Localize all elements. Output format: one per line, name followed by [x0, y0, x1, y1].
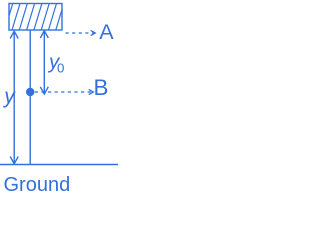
ceiling hatched block: [5, 4, 71, 31]
wire: double arrow ceiling-to-ground (left): [10, 31, 18, 164]
svg-text:y: y: [2, 85, 16, 108]
svg-text:A: A: [99, 20, 114, 44]
wire: double arrow ceiling-to-B (y0): [40, 31, 48, 94]
ground line: [0, 164, 118, 166]
svg-text:0: 0: [57, 61, 64, 76]
svg-text:Ground: Ground: [4, 174, 71, 196]
ball at B: [26, 88, 34, 96]
dashed arrow to A: [66, 30, 96, 35]
svg-text:B: B: [94, 75, 109, 100]
dashed arrow to B: [35, 89, 94, 94]
wire: plain line ceiling-to-ground (middle): [29, 31, 31, 165]
